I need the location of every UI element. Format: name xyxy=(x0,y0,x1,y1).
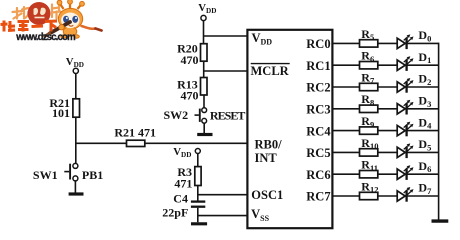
resistor R8 xyxy=(360,92,378,112)
IC pin label RC4 xyxy=(306,124,331,138)
wire cathode bus vertical xyxy=(438,43,440,220)
svg-text:RB0/: RB0/ xyxy=(255,138,283,152)
wire VDD-left to R21 xyxy=(75,74,77,100)
ground below C4 xyxy=(191,222,207,225)
svg-text:SW1: SW1 xyxy=(33,168,58,182)
wire LED D7 to cathode bus xyxy=(407,195,439,197)
ground bottom right xyxy=(432,219,449,222)
IC pin label MCLR (with overline) xyxy=(251,64,290,78)
svg-text:INT: INT xyxy=(255,151,278,165)
switch SW1 pushbutton PB1 xyxy=(33,163,103,182)
svg-text:RC0: RC0 xyxy=(306,37,330,51)
svg-text:C4: C4 xyxy=(173,192,188,206)
wire VDD branch to IC VDD pin xyxy=(204,35,248,37)
wire R9 to LED D4 xyxy=(378,130,397,132)
wire RC1 pin to resistor R6 xyxy=(332,64,359,66)
IC pin label OSC1 xyxy=(251,188,283,202)
wire LED D4 to cathode bus xyxy=(407,130,439,132)
wire LED D0 to cathode bus xyxy=(407,42,439,44)
capacitor C4 22pF xyxy=(162,192,205,220)
svg-text:SW2: SW2 xyxy=(164,108,189,122)
IC pin label RC7 xyxy=(306,190,330,204)
wire R12 to LED D7 xyxy=(378,195,397,197)
svg-text:101: 101 xyxy=(52,106,70,120)
wire R5 to LED D0 xyxy=(378,42,397,44)
IC pin label VSS xyxy=(251,207,269,223)
IC pin label RC6 xyxy=(306,168,330,182)
svg-text:R21 471: R21 471 xyxy=(114,126,156,140)
wire node VSS to IC xyxy=(198,215,248,217)
wire RC7 pin to resistor R12 xyxy=(332,195,359,197)
resistor R11 xyxy=(360,158,379,178)
resistor R10 xyxy=(360,136,379,156)
svg-text:RC1: RC1 xyxy=(306,59,330,73)
wire SW2 to ground xyxy=(203,123,205,133)
svg-text:RC4: RC4 xyxy=(306,124,331,138)
svg-text:MCLR: MCLR xyxy=(251,64,290,78)
wire RC5 pin to resistor R10 xyxy=(332,151,359,153)
IC pin label RB0/INT xyxy=(255,138,283,165)
wire LED D1 to cathode bus xyxy=(407,64,439,66)
IC pin label RC1 xyxy=(306,59,330,73)
resistor R5 xyxy=(360,27,378,47)
LED D7 xyxy=(397,181,432,202)
IC pin label RC2 xyxy=(306,81,330,95)
watermark logo group xyxy=(1,0,102,43)
svg-text:www.dzsc.com: www.dzsc.com xyxy=(15,32,76,43)
switch SW2 pushbutton RESET xyxy=(164,108,246,124)
wire R20 to R13 (node MCLR) xyxy=(203,61,205,77)
wire RC6 pin to resistor R11 xyxy=(332,173,359,175)
resistor R12 xyxy=(360,179,379,199)
ground below SW2 xyxy=(197,133,212,136)
svg-text:RC5: RC5 xyxy=(306,146,330,160)
ground below SW1 xyxy=(69,192,84,195)
resistor R9 xyxy=(360,114,378,134)
wire RC4 pin to resistor R9 xyxy=(332,130,359,132)
LED D3 xyxy=(397,94,431,115)
LED D5 xyxy=(397,137,431,158)
wire LED D3 to cathode bus xyxy=(407,108,439,110)
LED D1 xyxy=(397,50,431,71)
power terminal VDD (top) xyxy=(198,2,216,21)
svg-text:PB1: PB1 xyxy=(82,168,103,182)
wire R6 to LED D1 xyxy=(378,64,397,66)
wire C4 to ground (node VSS) xyxy=(197,208,199,223)
svg-text:470: 470 xyxy=(181,89,199,103)
resistor R21 471 (series to RB0/INT) xyxy=(114,126,156,147)
svg-text:RC7: RC7 xyxy=(306,190,330,204)
wire R21 to SW1 (node RB0 tee) xyxy=(75,117,77,163)
wire VDD-top down to R20 xyxy=(203,21,205,44)
wire node MCLR to IC xyxy=(204,70,248,72)
svg-text:RESET: RESET xyxy=(210,108,246,122)
power terminal VDD (middle) xyxy=(173,146,200,159)
wire R11 to LED D6 xyxy=(378,173,397,175)
wire LED D2 to cathode bus xyxy=(407,86,439,88)
wire RC3 pin to resistor R8 xyxy=(332,108,359,110)
wire node RB0/INT horizontal xyxy=(75,142,247,144)
svg-text:RC2: RC2 xyxy=(306,81,330,95)
svg-text:OSC1: OSC1 xyxy=(251,188,283,202)
wire VDD-mid to R3 xyxy=(197,153,199,166)
wire LED D5 to cathode bus xyxy=(407,151,439,153)
IC U1 (microcontroller) xyxy=(247,30,332,228)
wire node OSC1 to IC xyxy=(198,194,248,196)
power terminal VDD (left) xyxy=(66,56,84,74)
IC pin label VDD xyxy=(252,31,273,47)
resistor R6 xyxy=(360,49,378,69)
IC pin label RC0 xyxy=(306,37,330,51)
wire R3 to C4 (node OSC1) xyxy=(197,186,199,201)
svg-text:RC6: RC6 xyxy=(306,168,330,182)
LED D4 xyxy=(397,115,432,136)
svg-text:471: 471 xyxy=(174,177,192,191)
wire RC2 pin to resistor R7 xyxy=(332,86,359,88)
wire R8 to LED D3 xyxy=(378,108,397,110)
svg-text:470: 470 xyxy=(181,53,199,67)
LED D0 xyxy=(397,28,431,49)
LED D2 xyxy=(397,72,431,93)
wire R13 to SW2 xyxy=(203,95,205,108)
wire LED D6 to cathode bus xyxy=(407,173,439,175)
resistor R13 470 xyxy=(177,77,207,102)
wire RC0 pin to resistor R5 xyxy=(332,42,359,44)
IC pin label RC5 xyxy=(306,146,330,160)
wire SW1 to ground xyxy=(74,181,76,193)
wire R10 to LED D5 xyxy=(378,151,397,153)
resistor R3 471 xyxy=(174,165,201,191)
resistor R20 470 xyxy=(177,41,207,67)
IC pin label RC3 xyxy=(306,103,330,117)
wire R7 to LED D2 xyxy=(378,86,397,88)
LED D6 xyxy=(397,159,431,180)
resistor R7 xyxy=(360,70,378,90)
svg-text:22pF: 22pF xyxy=(162,206,188,220)
svg-text:RC3: RC3 xyxy=(306,103,330,117)
resistor R21 101 xyxy=(49,96,79,120)
